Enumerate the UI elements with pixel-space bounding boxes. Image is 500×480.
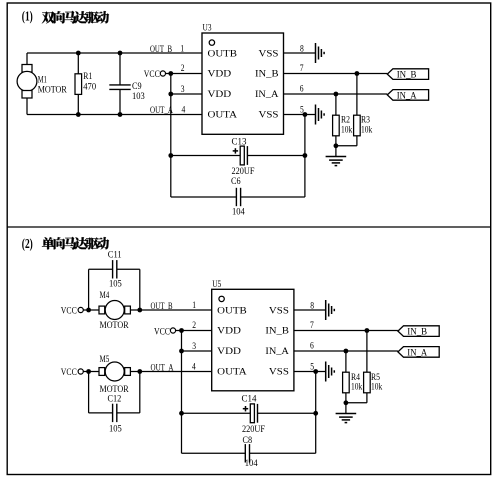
motor M4 (99, 290, 130, 331)
svg-text:OUTB: OUTB (217, 305, 247, 316)
junction VCC pin2 (U5) (179, 328, 184, 333)
capacitor C13 220UF (171, 136, 305, 177)
svg-text:470: 470 (83, 81, 96, 92)
wire OUT_B (M1 to U3 pin1) (27, 44, 202, 55)
svg-text:2: 2 (192, 320, 196, 331)
ground (U3 pin8) (316, 43, 325, 63)
svg-text:(2): (2) (22, 237, 33, 252)
svg-text:4: 4 (192, 361, 196, 372)
wire U3 pin7 to IN_B (284, 73, 388, 75)
power VCC (U5 pin 2) (154, 326, 212, 337)
svg-text:VSS: VSS (269, 366, 289, 377)
svg-text:6: 6 (310, 340, 314, 351)
port IN_B (top) (387, 69, 428, 81)
capacitor C11 105 (89, 249, 140, 310)
wire U5 pin7 to IN_B (294, 330, 398, 332)
svg-text:IN_A: IN_A (255, 89, 279, 100)
resistor R5 10k (364, 331, 383, 403)
port IN_A (bottom) (398, 347, 439, 359)
svg-text:OUT_A: OUT_A (151, 362, 174, 373)
junction VCC pin3 (U5) (179, 349, 184, 354)
wire U5 pin6 to IN_A (294, 350, 398, 352)
wire to earth ground (335, 146, 337, 157)
ground (U5 pin8) (326, 300, 335, 320)
wire U5 pin5 to ground (294, 371, 326, 373)
capacitor C14 220UF (182, 394, 316, 435)
capacitor C9 103 (109, 53, 145, 115)
motor M1 (17, 53, 67, 115)
junction pin6/R2 (334, 92, 339, 97)
wire R5 bottom to R4 bottom (346, 402, 367, 404)
wire U5 pin3 (182, 350, 212, 352)
svg-text:VDD: VDD (208, 89, 232, 100)
junction R1 bottom (76, 112, 81, 117)
wire U3 pin8 to ground (284, 52, 316, 54)
svg-text:6: 6 (300, 83, 304, 94)
svg-text:IN_B: IN_B (255, 69, 279, 80)
svg-text:C6: C6 (231, 176, 241, 187)
wire U3 pin6 to IN_A (284, 93, 388, 95)
wire U3 pin5 to ground (284, 114, 316, 116)
power VCC (U3 pin 2) (144, 69, 202, 80)
svg-text:220UF: 220UF (242, 424, 265, 435)
junction C11 left / M4 (86, 308, 91, 313)
svg-text:VCC: VCC (144, 69, 160, 80)
resistor R2 10k (333, 94, 353, 146)
wire OUT_A (M1 to U3 pin4) (27, 105, 202, 116)
svg-text:IN_B: IN_B (407, 327, 427, 338)
resistor R1 470 (75, 53, 96, 115)
svg-text:C12: C12 (108, 394, 122, 405)
svg-text:8: 8 (310, 300, 314, 311)
svg-text:VDD: VDD (208, 69, 232, 80)
svg-text:C8: C8 (243, 435, 253, 446)
junction C11 right (137, 308, 142, 313)
svg-text:104: 104 (232, 206, 245, 217)
capacitor C6 104 (171, 176, 305, 218)
junction pin5 (303, 112, 308, 117)
junction R2/R3 bottom (334, 143, 339, 148)
svg-text:IN_A: IN_A (407, 348, 427, 359)
motor M5 (99, 354, 130, 395)
IC U5 (212, 279, 294, 391)
svg-text:C13: C13 (232, 136, 247, 147)
svg-text:OUTB: OUTB (208, 48, 238, 59)
svg-text:VSS: VSS (269, 305, 289, 316)
title 1: (1) 双向马达驱动 (22, 10, 109, 25)
svg-text:10k: 10k (361, 124, 372, 135)
svg-text:M4: M4 (100, 290, 110, 301)
junction VCC pin3 (168, 92, 173, 97)
port IN_B (bottom) (398, 326, 439, 338)
earth ground (R2/R3) (326, 157, 347, 166)
junction C12 left / M5 (86, 369, 91, 374)
svg-text:10k: 10k (351, 382, 362, 393)
svg-text:103: 103 (132, 91, 145, 102)
junction R1 top (76, 51, 81, 56)
svg-text:OUTA: OUTA (217, 366, 247, 377)
svg-text:VCC: VCC (154, 326, 170, 337)
junction C13 left (168, 153, 173, 158)
junction C14 right (313, 411, 318, 416)
wire VCC vertical to C14/C8 (181, 331, 183, 454)
wire OUT_A (M5 to U5 pin4) (130, 362, 211, 373)
svg-text:VDD: VDD (217, 326, 241, 337)
power VCC (M5) (61, 367, 99, 378)
svg-text:7: 7 (300, 63, 304, 74)
svg-text:1: 1 (192, 300, 196, 311)
svg-text:IN_A: IN_A (397, 91, 417, 102)
svg-text:104: 104 (245, 458, 258, 469)
wire right vertical (pin5 to C6) (304, 115, 306, 198)
junction C12 right (137, 369, 142, 374)
svg-text:8: 8 (300, 43, 304, 54)
junction C9 top (118, 51, 123, 56)
junction pin7/R5 (365, 328, 370, 333)
svg-text:VCC: VCC (61, 367, 77, 378)
svg-text:MOTOR: MOTOR (100, 320, 129, 331)
junction VCC pin2 (168, 71, 173, 76)
svg-text:10k: 10k (371, 382, 382, 393)
svg-text:7: 7 (310, 320, 314, 331)
junction C9 bottom (118, 112, 123, 117)
svg-text:OUTA: OUTA (208, 109, 238, 120)
svg-text:VSS: VSS (259, 48, 279, 59)
svg-text:(1): (1) (22, 10, 33, 25)
svg-text:VSS: VSS (259, 109, 279, 120)
svg-text:105: 105 (109, 423, 122, 434)
junction pin5 (U5) (313, 369, 318, 374)
svg-text:U3: U3 (203, 23, 212, 34)
junction R4/R5 bottom (344, 400, 349, 405)
junction C13 right (303, 153, 308, 158)
svg-text:1: 1 (180, 44, 184, 55)
svg-text:3: 3 (181, 84, 185, 95)
svg-text:OUT_B: OUT_B (151, 301, 173, 312)
IC U3 (202, 23, 284, 135)
svg-text:C11: C11 (108, 249, 122, 260)
svg-text:10k: 10k (341, 124, 352, 135)
svg-text:C14: C14 (242, 394, 257, 405)
svg-text:105: 105 (109, 278, 122, 289)
svg-text:VCC: VCC (61, 305, 77, 316)
resistor R3 10k (354, 74, 373, 146)
svg-text:OUT_A: OUT_A (150, 105, 173, 116)
capacitor C8 104 (182, 435, 316, 469)
svg-text:IN_B: IN_B (397, 70, 417, 81)
power VCC (M4) (61, 305, 99, 316)
svg-text:VDD: VDD (217, 346, 241, 357)
svg-text:IN_B: IN_B (265, 326, 289, 337)
wire U5 pin8 to ground (294, 309, 326, 311)
port IN_A (top) (387, 90, 428, 102)
svg-text:3: 3 (192, 341, 196, 352)
wire VCC vertical to C13/C6 (170, 74, 172, 198)
junction C14 left (179, 411, 184, 416)
svg-text:M5: M5 (100, 354, 110, 365)
ground (U3 pin5) (316, 105, 325, 125)
svg-text:IN_A: IN_A (265, 346, 289, 357)
wire U3 pin3 (171, 93, 202, 95)
wire R3 bottom to R2 bottom (336, 145, 357, 147)
svg-text:2: 2 (181, 63, 185, 74)
svg-text:MOTOR: MOTOR (38, 85, 67, 96)
resistor R4 10k (343, 351, 363, 403)
wire OUT_B (M4 to U5 pin1) (130, 301, 211, 312)
svg-text:OUT_B: OUT_B (150, 44, 172, 55)
wire to earth ground (U5) (345, 403, 347, 414)
junction pin6/R4 (344, 349, 349, 354)
earth ground (R4/R5) (336, 414, 357, 423)
capacitor C12 105 (89, 372, 140, 435)
wire right vertical (pin5 to C8, U5) (315, 372, 317, 454)
section divider line (7, 226, 491, 228)
svg-text:4: 4 (182, 105, 186, 116)
ground (U5 pin5) (326, 362, 335, 382)
junction pin7/R3 (355, 71, 360, 76)
svg-text:U5: U5 (212, 279, 221, 290)
title 2: (2) 单向马达驱动 (22, 237, 109, 252)
